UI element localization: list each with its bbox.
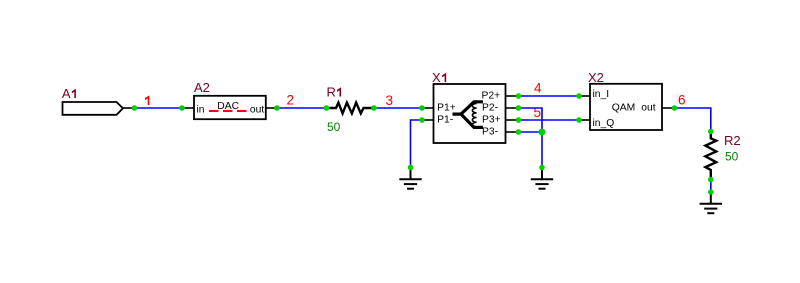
wire net 1: [135, 107, 183, 109]
X1 P2- pin stub: [506, 107, 519, 109]
wire port to node 1: [123, 107, 135, 109]
X1 P2+ pin stub: [506, 95, 519, 97]
node at X1 P1+: [419, 105, 425, 111]
svg-text:out: out: [641, 103, 655, 114]
svg-text:P2-: P2-: [482, 102, 498, 113]
wire net 3: [374, 107, 422, 109]
svg-text:3: 3: [386, 93, 394, 108]
svg-text:R: R: [327, 85, 336, 100]
net label 1: [145, 95, 149, 105]
port A1: [63, 102, 124, 115]
node at R1 right: [371, 105, 377, 111]
junction node: [539, 129, 546, 136]
node P2-: [516, 105, 522, 111]
node at R1 left: [324, 105, 330, 111]
svg-text:R2: R2: [724, 133, 741, 148]
node 2 dot: [274, 105, 280, 111]
svg-text:50: 50: [327, 120, 341, 134]
node P3+: [516, 117, 522, 123]
svg-text:in: in: [197, 105, 205, 116]
resistor R1: [327, 103, 375, 114]
modulator X2 box: [590, 84, 662, 130]
ground G3: [700, 192, 722, 213]
node at X2 in_I: [576, 93, 582, 99]
svg-text:6: 6: [678, 93, 686, 108]
wire R2 to ground G3: [710, 180, 712, 193]
svg-text:X: X: [432, 70, 441, 85]
wire net 4: [519, 95, 580, 97]
X1 coil squiggle: [472, 103, 476, 127]
node at ground G2: [539, 165, 545, 171]
node at R2 top: [708, 129, 714, 135]
wire P2- to junction: [519, 108, 543, 132]
wire junction to ground G2: [541, 132, 543, 168]
svg-text:P1-: P1-: [437, 114, 453, 125]
transformer X1 box: [434, 84, 506, 143]
svg-text:P3-: P3-: [482, 126, 498, 137]
svg-text:P3+: P3+: [482, 114, 501, 125]
svg-text:X2: X2: [588, 70, 604, 85]
svg-text:P2+: P2+: [482, 90, 501, 101]
wire node to X1 P1- pin: [422, 119, 434, 121]
wire DAC out to node 2: [266, 107, 277, 109]
svg-text:in_Q: in_Q: [593, 118, 615, 129]
svg-text:A2: A2: [194, 80, 210, 95]
X1 P3+ pin stub: [506, 119, 519, 121]
wire node to X2 in_I pin: [579, 95, 590, 97]
X1 P3- pin stub: [506, 131, 519, 133]
node at ground G1: [408, 165, 414, 171]
wire X2 out to node 6: [662, 107, 675, 109]
ground G1: [399, 168, 421, 189]
node at X1 P1-: [419, 117, 425, 123]
node at ground G3: [708, 189, 714, 195]
node at X2 in_Q: [576, 117, 582, 123]
wire node to X1 P1+ pin: [422, 107, 434, 109]
wire node to X2 in_Q pin: [579, 119, 590, 121]
node 1 dot: [132, 105, 138, 111]
node 6 dot: [672, 105, 678, 111]
wire net 2: [277, 107, 327, 109]
ground G2: [531, 168, 553, 189]
svg-text:2: 2: [287, 93, 295, 108]
node P2+: [516, 93, 522, 99]
X1 splitter symbol arms: [453, 102, 484, 128]
red dashed underline: [209, 110, 247, 112]
svg-text:QAM: QAM: [612, 102, 635, 113]
wire node to DAC in pin: [182, 107, 194, 109]
wire net 6: [675, 108, 711, 132]
svg-text:50: 50: [725, 150, 739, 164]
svg-text:A: A: [62, 86, 71, 101]
node at R2 bottom: [708, 177, 714, 183]
svg-text:in_I: in_I: [593, 89, 610, 100]
svg-text:P1+: P1+: [437, 102, 456, 113]
node at DAC input: [179, 105, 185, 111]
wire P3- to junction: [519, 131, 543, 133]
wire net 5: [519, 119, 580, 121]
DAC A2 box: [194, 96, 266, 119]
svg-text:4: 4: [534, 81, 542, 96]
wire P1- to ground G1: [411, 120, 423, 168]
resistor R2: [705, 132, 716, 180]
svg-text:out: out: [250, 105, 264, 116]
node P3-: [516, 129, 522, 135]
